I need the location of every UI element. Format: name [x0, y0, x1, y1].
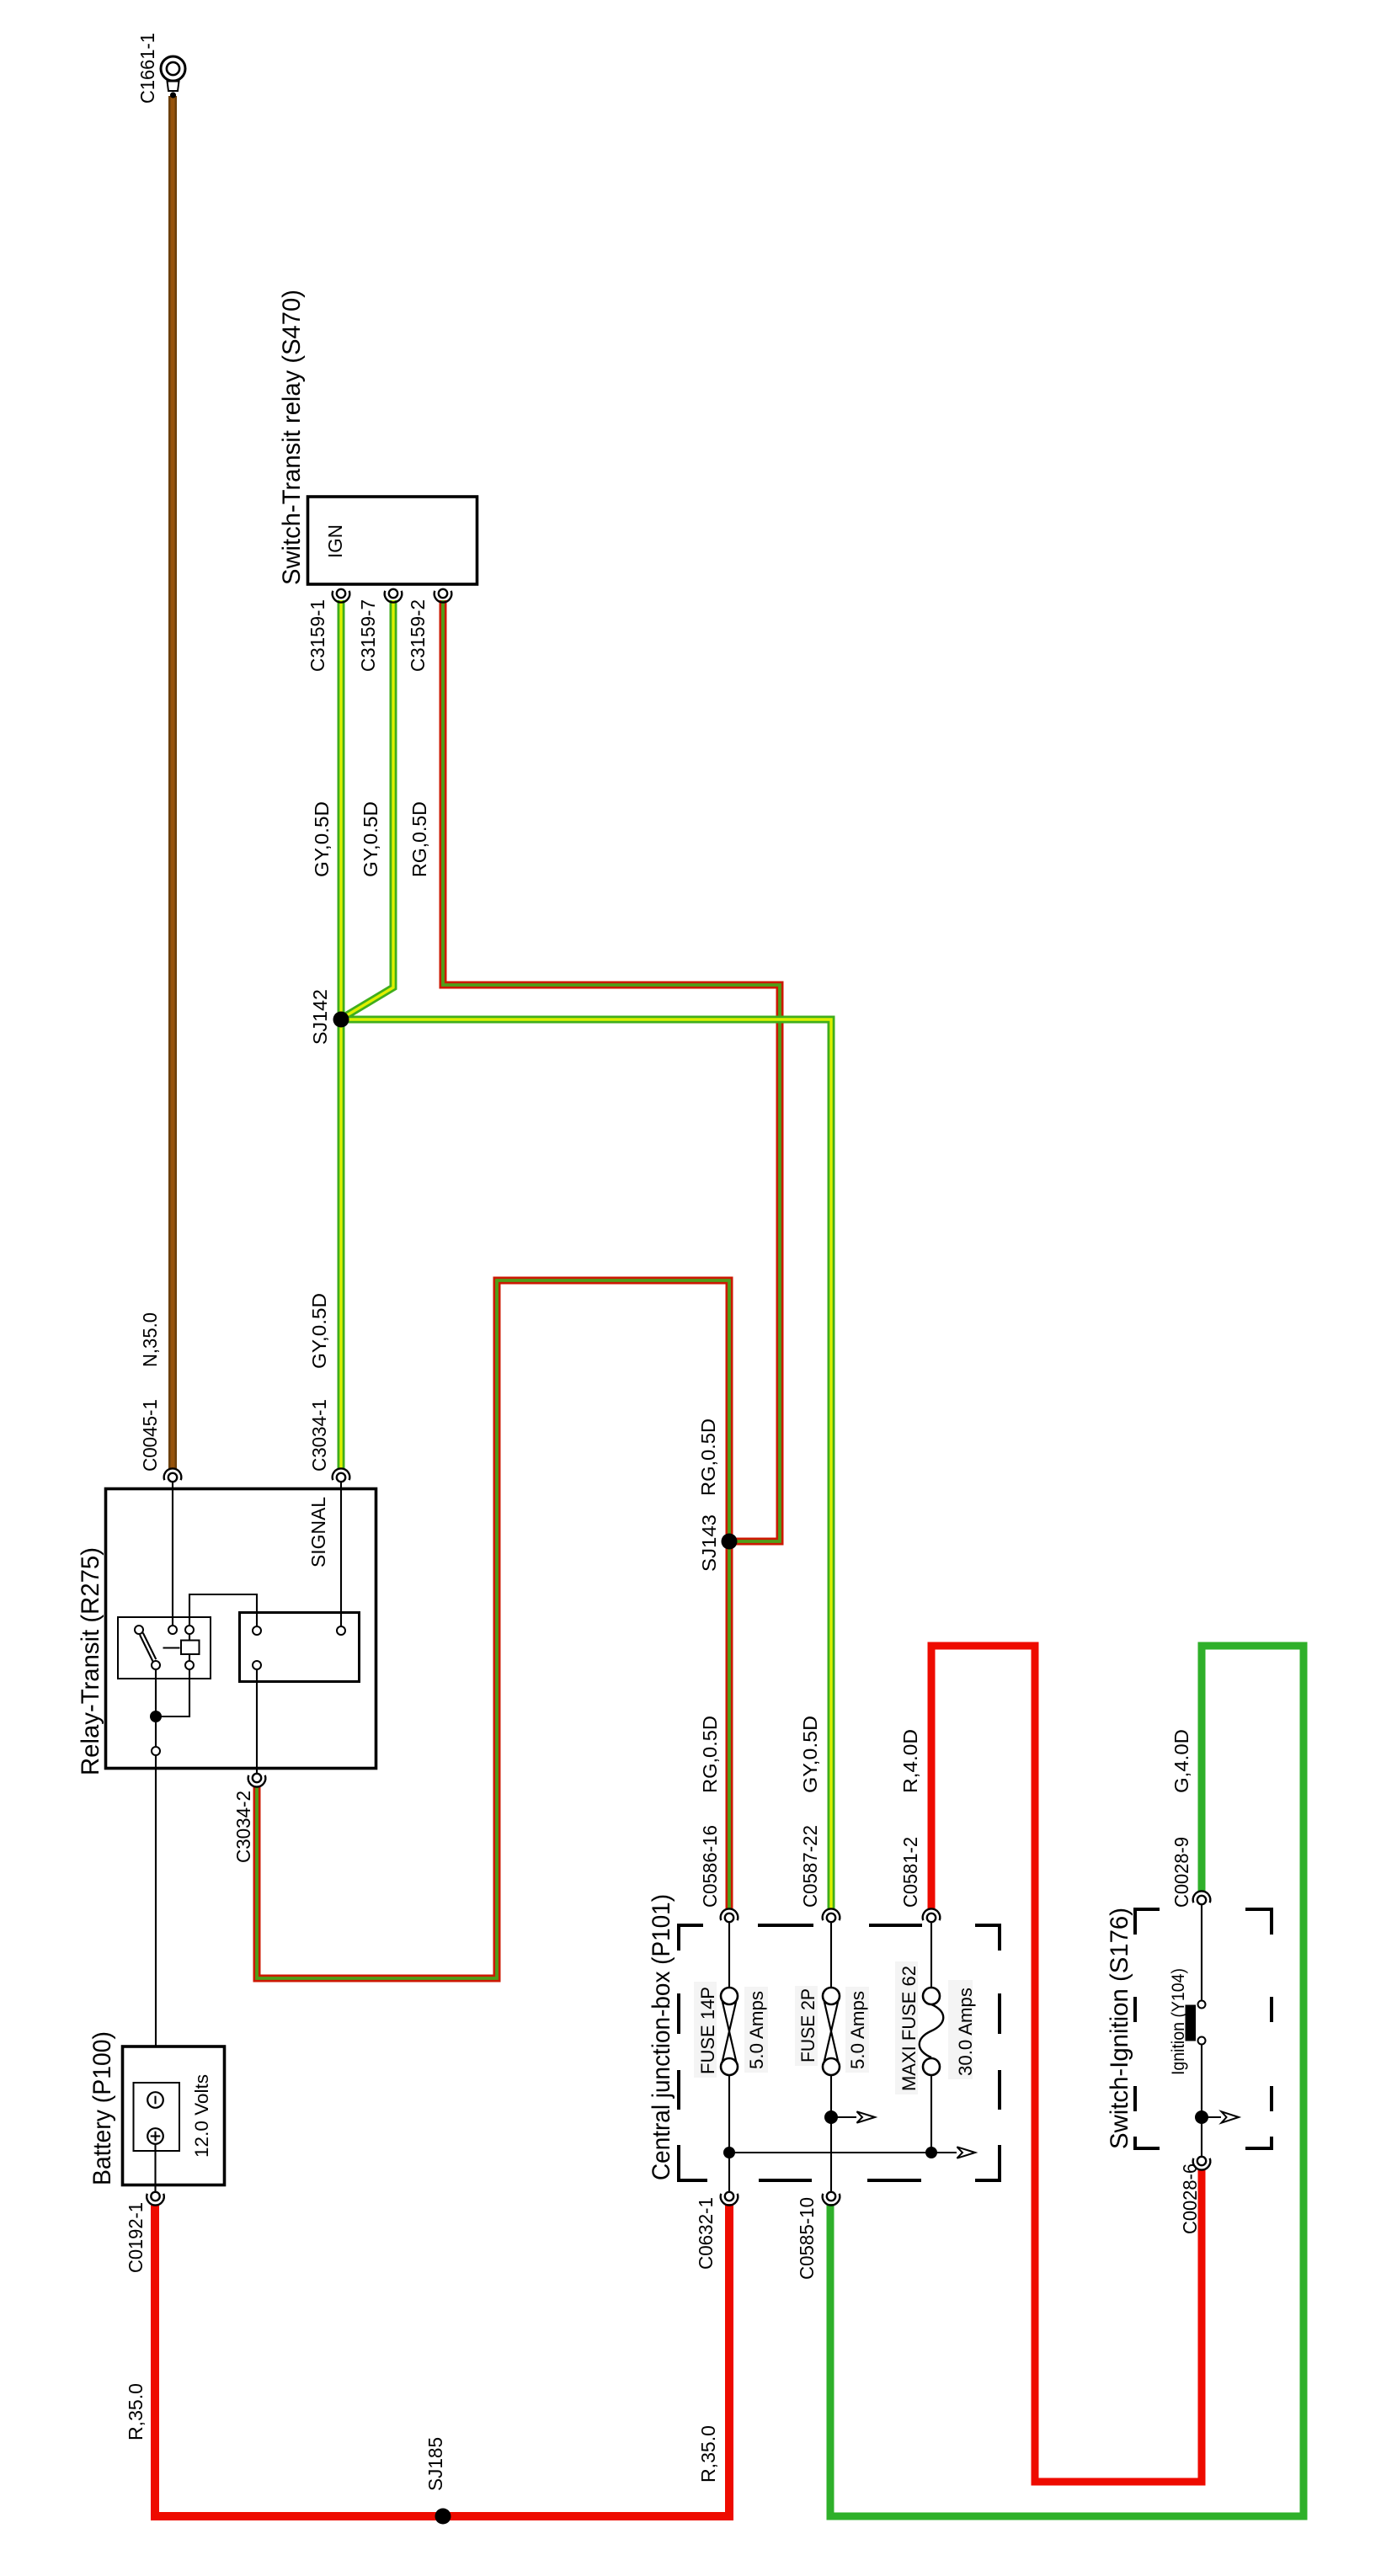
svg-text:RG,0.5D: RG,0.5D: [699, 1716, 721, 1793]
Relay-Transit (R275) box: [106, 1489, 376, 1769]
pin C3159-7: [385, 589, 403, 603]
pin C0586-16: [721, 1908, 738, 1922]
svg-text:Battery (P100): Battery (P100): [88, 2031, 116, 2185]
svg-text:C0045-1: C0045-1: [139, 1399, 161, 1472]
pin C0587-22: [823, 1908, 840, 1922]
Central junction-box (P101) dashed border: [679, 1925, 1000, 2180]
svg-text:SJ143: SJ143: [698, 1514, 720, 1572]
wire signal box to C3034-2: [256, 1669, 258, 1773]
svg-text:Relay-Transit (R275): Relay-Transit (R275): [77, 1547, 104, 1775]
pin C3034-1: [333, 1468, 350, 1482]
wire G,4.0D C0585-10 to C0028-9: [830, 1646, 1304, 2516]
svg-text:SJ142: SJ142: [309, 989, 331, 1045]
relay sub-box: [118, 1617, 211, 1679]
svg-text:GY,0.5D: GY,0.5D: [311, 801, 333, 877]
svg-text:30.0 Amps: 30.0 Amps: [955, 1988, 976, 2076]
svg-text:RG,0.5D: RG,0.5D: [408, 801, 430, 877]
wire R,35.0 battery C0192-1 via SJ185 to C0632-1: [155, 2204, 729, 2516]
pin C0632-1: [721, 2192, 738, 2206]
svg-text:Switch-Transit relay (S470): Switch-Transit relay (S470): [278, 290, 306, 585]
Switch-Ignition (S176) dashed border: [1135, 1909, 1272, 2148]
FUSE 14P symbol: [721, 1922, 738, 2192]
wire R,4.0D C0581-2 to C0028-6: [931, 1646, 1202, 2482]
pin C0045-1: [164, 1468, 182, 1482]
svg-text:C0587-22: C0587-22: [799, 1825, 821, 1908]
switch arm: [140, 1635, 153, 1662]
battery positive terminal: [147, 2128, 163, 2144]
pin C3034-2: [248, 1774, 266, 1787]
coil box: [181, 1641, 200, 1655]
splice SJ142: [333, 1012, 349, 1028]
ring terminal C1661-1: [161, 56, 185, 98]
svg-text:C0192-1: C0192-1: [125, 2202, 147, 2273]
wire RG,0.5D C3159-2 to SJ143: [443, 600, 780, 1541]
svg-text:C3159-7: C3159-7: [357, 599, 379, 672]
top edge: [679, 1925, 703, 1951]
svg-text:G,4.0D: G,4.0D: [1170, 1729, 1192, 1793]
svg-text:N,35.0: N,35.0: [139, 1312, 161, 1367]
svg-text:GY,0.5D: GY,0.5D: [308, 1293, 330, 1369]
svg-text:12.0 Volts: 12.0 Volts: [191, 2074, 212, 2158]
svg-text:R,35.0: R,35.0: [697, 2425, 719, 2483]
svg-text:R,4.0D: R,4.0D: [899, 1729, 921, 1793]
svg-text:FUSE 14P: FUSE 14P: [697, 1987, 718, 2074]
battery negative terminal: [147, 2092, 163, 2108]
wire relay to battery: [155, 1755, 157, 2093]
battery cell box: [134, 2083, 180, 2151]
Battery (P100) box: [123, 2046, 225, 2185]
svg-text:C0028-9: C0028-9: [1170, 1837, 1192, 1908]
arrow at FUSE 2P junction: [824, 2110, 875, 2124]
pin C3159-1: [333, 589, 350, 603]
svg-text:5.0 Amps: 5.0 Amps: [746, 1991, 767, 2069]
splice SJ143: [722, 1534, 738, 1550]
wire coil top over to signal box: [189, 1594, 257, 1626]
splice SJ185: [435, 2509, 451, 2525]
svg-text:SIGNAL: SIGNAL: [307, 1497, 329, 1567]
FUSE 2P symbol: [823, 1922, 840, 2192]
bottom edge: [679, 2145, 707, 2180]
wire N,35.0 from C1661-1 to C0045-1: [168, 96, 177, 1469]
wire GY,0.5D C3159-1 to C3034-1 through SJ142: [338, 600, 345, 1469]
svg-text:C3034-1: C3034-1: [308, 1399, 330, 1472]
svg-text:C3159-2: C3159-2: [407, 599, 429, 672]
pin C3159-2: [435, 589, 452, 603]
wire RG,0.5D C3034-2 to SJ143 to C0586-16: [257, 1280, 729, 1978]
pin C0028-6: [1193, 2157, 1211, 2170]
svg-text:Switch-Ignition (S176): Switch-Ignition (S176): [1106, 1908, 1133, 2149]
svg-text:C0028-6: C0028-6: [1179, 2164, 1201, 2234]
wire pin to signal box contact: [340, 1482, 342, 1626]
svg-text:IGN: IGN: [324, 524, 346, 558]
svg-text:5.0 Amps: 5.0 Amps: [847, 1991, 868, 2069]
wire pin to relay contact: [172, 1482, 173, 1626]
pin C0028-9: [1193, 1891, 1211, 1904]
pin C0581-2: [923, 1908, 941, 1922]
arrow at MAXI FUSE junction: [931, 2147, 975, 2158]
svg-text:C3034-2: C3034-2: [232, 1791, 254, 1863]
MAXI FUSE 62 symbol: [920, 1922, 944, 2153]
wire GY,0.5D SJ142 to C0587-22: [341, 1019, 831, 1909]
wire battery to pin: [154, 2144, 156, 2192]
svg-text:R,35.0: R,35.0: [125, 2383, 147, 2440]
svg-text:GY,0.5D: GY,0.5D: [360, 801, 381, 877]
signal sub-box: [240, 1613, 360, 1682]
svg-text:FUSE 2P: FUSE 2P: [797, 1988, 818, 2062]
wire GY,0.5D C3159-7 to SJ142: [343, 600, 393, 1018]
svg-text:Ignition (Y104): Ignition (Y104): [1169, 1968, 1188, 2075]
ignition switch internals: [1186, 1904, 1240, 2157]
right edge: [998, 1993, 1001, 2034]
svg-text:RG,0.5D: RG,0.5D: [697, 1418, 719, 1496]
svg-text:Central junction-box (P101): Central junction-box (P101): [648, 1894, 675, 2180]
svg-text:C1661-1: C1661-1: [136, 33, 158, 104]
pin C0192-1: [147, 2192, 164, 2206]
coil dash: [163, 1647, 180, 1648]
svg-text:MAXI FUSE 62: MAXI FUSE 62: [898, 1966, 920, 2091]
fuse label halo backgrounds: [694, 1961, 973, 2094]
svg-text:C0585-10: C0585-10: [796, 2197, 818, 2280]
svg-text:SJ185: SJ185: [424, 2437, 446, 2491]
junction dot: [150, 1711, 162, 1722]
pin C0585-10: [823, 2192, 840, 2206]
svg-text:C0581-2: C0581-2: [899, 1837, 921, 1908]
inline connector circle: [152, 1747, 160, 1755]
relay internals: [118, 1482, 360, 2093]
wires to battery junction: [155, 1669, 157, 1712]
svg-text:C3159-1: C3159-1: [307, 599, 328, 672]
svg-text:C0632-1: C0632-1: [695, 2197, 717, 2270]
contact circles: [135, 1626, 143, 1634]
left edge: [677, 1993, 680, 2034]
junction bus in P101: [729, 2152, 931, 2153]
svg-text:C0586-16: C0586-16: [699, 1825, 721, 1908]
Switch-Transit relay (S470) box: [308, 497, 477, 584]
svg-text:GY,0.5D: GY,0.5D: [799, 1716, 821, 1793]
